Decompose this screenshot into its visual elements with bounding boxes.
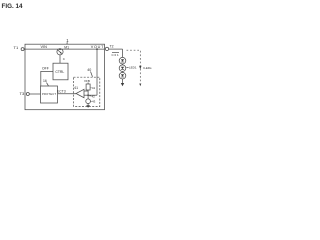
svg-text:41: 41	[92, 86, 96, 90]
svg-text:PROTECT: PROTECT	[42, 92, 56, 96]
wire VFB stub	[87, 83, 89, 85]
svg-text:ECT3: ECT3	[57, 90, 66, 94]
svg-text:C: C	[63, 57, 66, 61]
svg-text:M1: M1	[64, 45, 69, 49]
wire	[122, 63, 124, 66]
wire LED string top	[122, 49, 124, 57]
wire VOUT feedback line	[96, 49, 98, 95]
control block CTRL	[53, 63, 68, 80]
wire gate stub	[59, 55, 61, 63]
ground LED string	[122, 79, 124, 83]
svg-text:43: 43	[92, 100, 96, 104]
comparator input stubs	[84, 90, 88, 92]
numeral 42	[89, 95, 91, 97]
current path ILEDs dashed	[127, 50, 141, 83]
comparator 61	[76, 89, 84, 97]
LED1 symbol	[119, 57, 126, 64]
junction dot	[87, 94, 89, 96]
arrowhead bottom	[139, 84, 141, 87]
svg-text:LED1: LED1	[129, 66, 137, 70]
transistor M1	[57, 49, 63, 55]
wire	[122, 71, 124, 74]
svg-text:FIG. 14: FIG. 14	[2, 3, 23, 10]
leader tick for numeral 1	[66, 42, 68, 44]
LED3 symbol	[119, 72, 126, 79]
svg-text:C01: C01	[112, 53, 120, 57]
LED2 symbol	[119, 65, 126, 72]
svg-text:ILEDs: ILEDs	[143, 66, 152, 70]
svg-text:16: 16	[43, 79, 47, 83]
svg-text:OFF: OFF	[42, 66, 49, 70]
detection block 40 dashed	[74, 77, 100, 106]
current source 43	[86, 99, 91, 104]
svg-text:T1: T1	[14, 45, 19, 50]
svg-text:40: 40	[87, 68, 91, 72]
svg-text:T2: T2	[110, 45, 114, 49]
svg-text:T3: T3	[20, 91, 25, 96]
svg-text:CTRL: CTRL	[55, 70, 64, 74]
svg-text:VFB: VFB	[84, 79, 90, 83]
resistor R1 41	[86, 84, 90, 90]
terminal T2 circle	[105, 47, 108, 50]
terminal T3 circle	[26, 93, 29, 96]
IC box outline 1	[25, 44, 105, 110]
protect block 16	[41, 86, 58, 103]
junction dot VOUT	[96, 48, 98, 50]
arrowhead ILEDs	[139, 66, 141, 70]
ground inside block 40	[87, 104, 89, 106]
svg-text:42: 42	[92, 94, 96, 98]
wire T2 to LED string	[108, 48, 122, 50]
terminal T1 circle	[21, 48, 24, 51]
capacitor C01	[112, 52, 119, 54]
wire rail VIN to VOUT	[24, 48, 104, 50]
svg-text:1: 1	[66, 38, 69, 43]
wire OFF from protect block to CTRL	[41, 71, 53, 86]
wire T3 to protect block	[29, 93, 40, 95]
wire divider	[87, 90, 89, 99]
wire comparator output to protect block	[58, 93, 77, 95]
svg-text:61: 61	[75, 86, 79, 90]
svg-text:VIN: VIN	[41, 45, 48, 49]
